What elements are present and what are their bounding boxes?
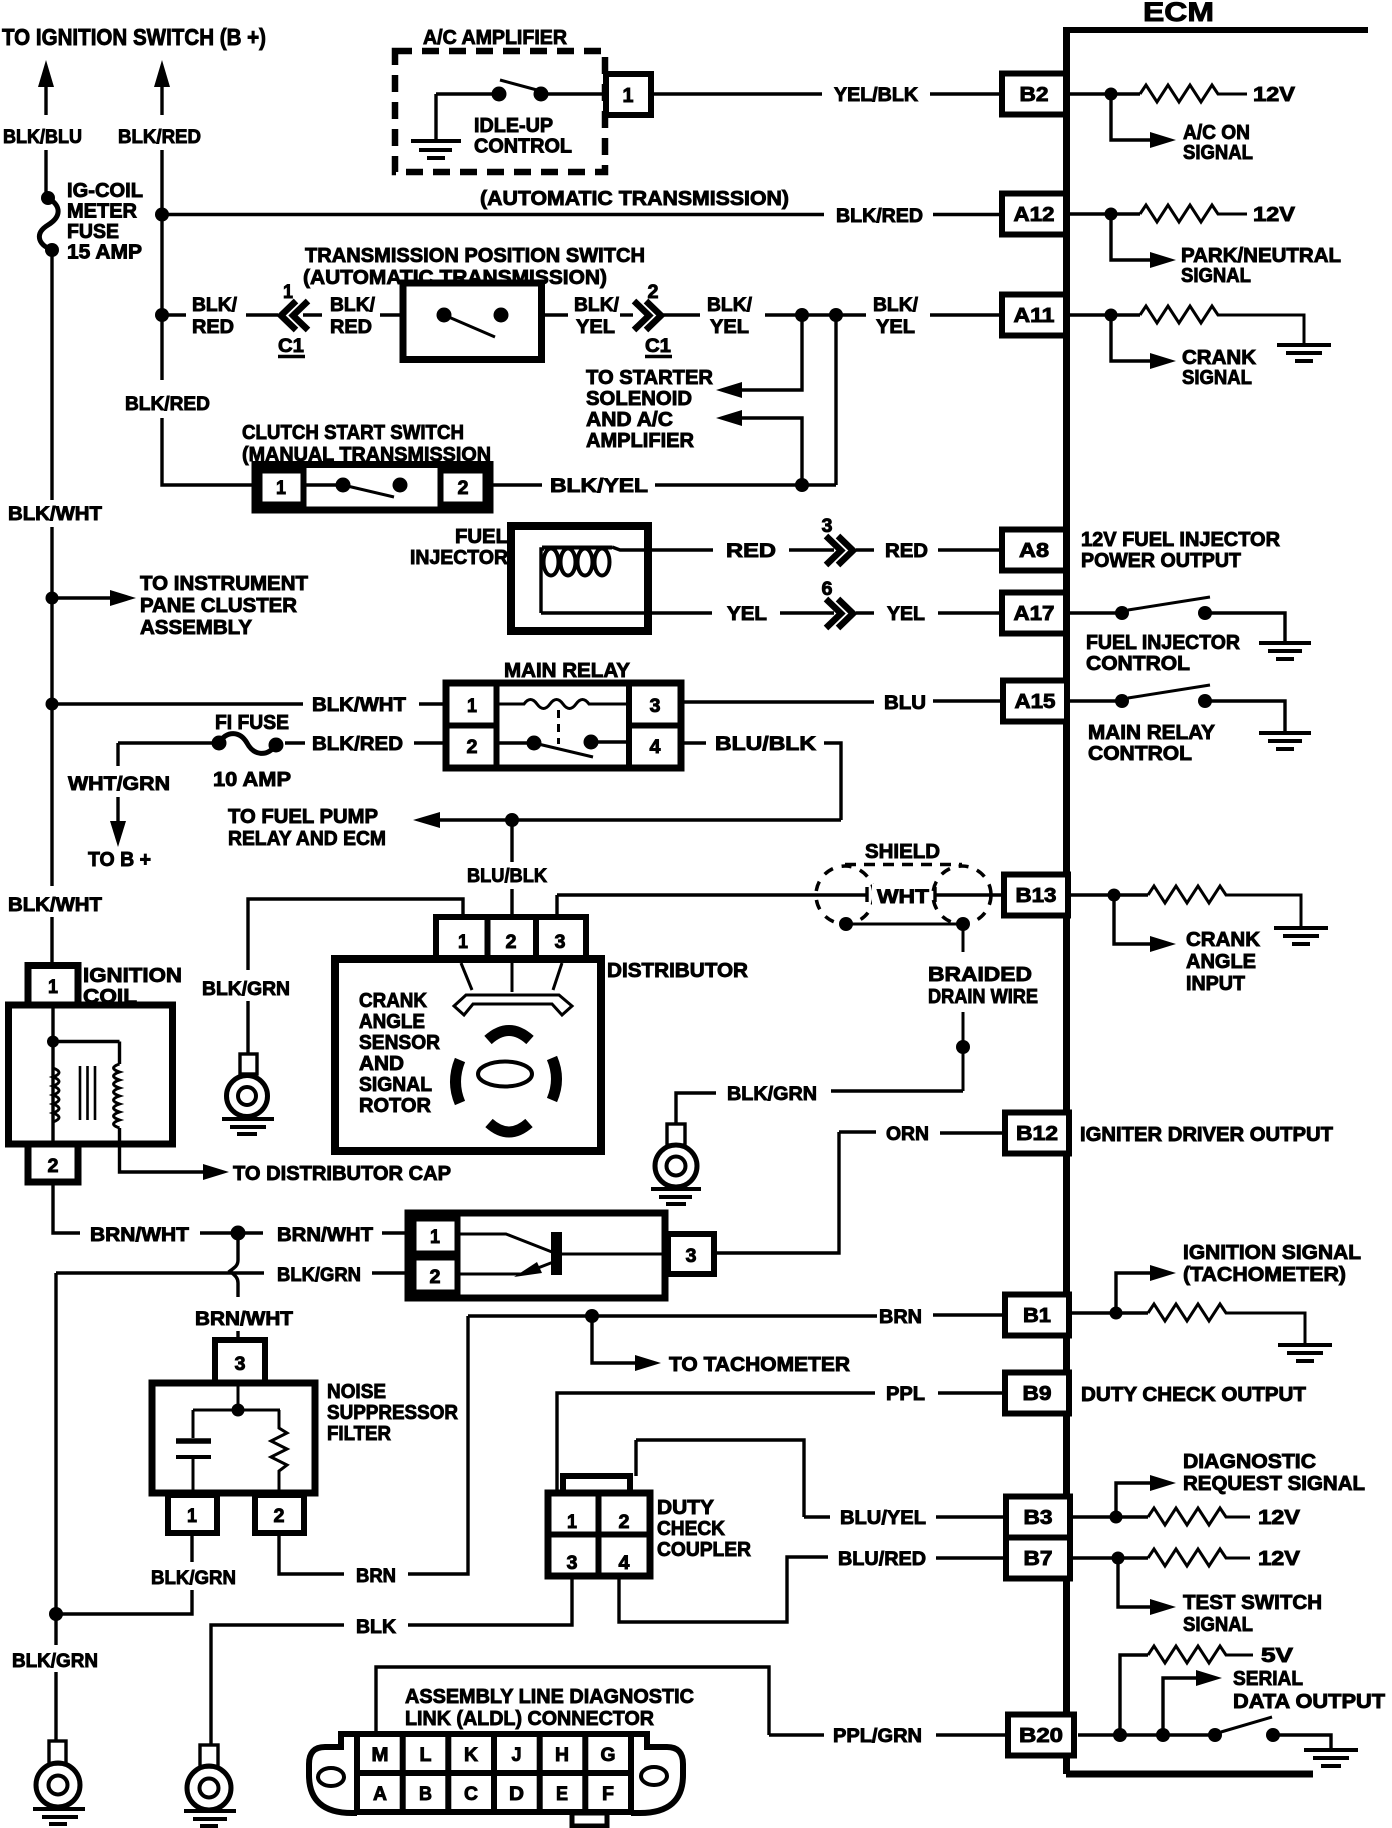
svg-text:RED: RED [885,540,928,562]
svg-text:BLK/: BLK/ [192,294,238,316]
node A/C ON SIGNAL arrow [1111,94,1253,164]
wire BLK/YEL riser to row3 [834,315,837,485]
wire PPL/GRN ALDL to B20 [376,1667,1008,1747]
svg-text:DUTY CHECK OUTPUT: DUTY CHECK OUTPUT [1081,1384,1306,1406]
connector A11 [1002,295,1066,336]
svg-text:2: 2 [48,1155,59,1177]
svg-text:PPL/GRN: PPL/GRN [833,1725,922,1747]
svg-text:A11: A11 [1014,305,1055,327]
svg-text:C1: C1 [645,335,671,357]
svg-text:1: 1 [467,695,477,717]
svg-text:1: 1 [48,976,58,998]
svg-text:B12: B12 [1016,1123,1058,1145]
wire YEL/BLK to B2 [651,84,1002,106]
connector B7 [1006,1538,1070,1579]
svg-text:IDLE-UP: IDLE-UP [474,115,553,137]
wire BLK/GRN distributor pin1 to ground [202,899,463,1054]
node 12V FUEL INJECTOR POWER OUTPUT [1081,529,1281,572]
svg-text:CHECK: CHECK [657,1518,726,1540]
connector C1 pin 1 chevron [278,281,308,357]
svg-text:BLK/RED: BLK/RED [836,205,923,227]
component MAIN RELAY [446,659,681,768]
ground GND-B13 [1274,928,1328,944]
svg-text:BLK/RED: BLK/RED [125,393,210,415]
svg-text:MAIN RELAY: MAIN RELAY [504,659,630,682]
svg-text:A8: A8 [1019,540,1049,562]
wire BLK/RED vertical to clutch switch [125,315,255,485]
wire ECM bottom boundary [1066,1771,1313,1778]
wire ORN igniter pin3 to B12 [714,1123,1005,1253]
svg-text:1: 1 [623,85,634,107]
wire BLK/WHT to main relay pin1 [46,694,447,716]
svg-text:ORN: ORN [886,1123,929,1145]
svg-text:BLK/YEL: BLK/YEL [550,475,648,497]
svg-text:BLK/RED: BLK/RED [312,733,403,755]
svg-text:LINK (ALDL) CONNECTOR: LINK (ALDL) CONNECTOR [405,1707,654,1730]
svg-text:2: 2 [619,1511,630,1533]
switch SW-A15 main relay control [1070,685,1285,765]
svg-text:2: 2 [467,736,478,758]
svg-text:DATA OUTPUT: DATA OUTPUT [1233,1691,1385,1713]
svg-text:CONTROL: CONTROL [1088,743,1192,765]
svg-text:B2: B2 [1020,84,1049,106]
wire ECM top boundary [1063,27,1368,33]
svg-text:K: K [464,1744,478,1766]
component FUEL INJECTOR [410,526,665,631]
node PARK/NEUTRAL SIGNAL arrow [1111,214,1341,287]
svg-text:3: 3 [555,931,566,953]
component transmission position switch box [403,283,542,360]
svg-text:CONTROL: CONTROL [1086,653,1190,675]
resistor R-A12 and 12V [1070,204,1296,226]
svg-text:BLK/BLU: BLK/BLU [3,126,82,148]
svg-text:BRN/WHT: BRN/WHT [277,1224,373,1246]
svg-text:BLK/: BLK/ [574,294,620,316]
svg-text:POWER OUTPUT: POWER OUTPUT [1081,550,1241,572]
wire WHT to B13 [557,884,1004,908]
svg-text:2: 2 [274,1505,285,1527]
svg-text:BLK/RED: BLK/RED [118,126,201,148]
svg-text:12V FUEL INJECTOR: 12V FUEL INJECTOR [1081,529,1281,551]
svg-text:C1: C1 [278,335,304,357]
svg-text:H: H [555,1744,569,1766]
resistor R-B2 and 12V [1070,84,1296,106]
resistor R-A11 to ground [1070,306,1304,343]
node CLUTCH START SWITCH title [242,421,491,466]
resistor R-B13 to ground [1070,886,1301,926]
svg-text:1: 1 [567,1511,577,1533]
svg-text:BRN/WHT: BRN/WHT [90,1224,189,1246]
svg-text:4: 4 [650,736,661,758]
svg-text:BLK/: BLK/ [707,294,753,316]
svg-text:3: 3 [822,515,833,537]
svg-text:3: 3 [650,695,661,717]
junction dot row2 [155,208,169,222]
ground GND idle-up [411,94,461,158]
connector A15 [1003,681,1067,722]
svg-text:ANGLE: ANGLE [359,1011,425,1033]
wire BLK/RED row3 mid [303,294,403,338]
connector B2 [1002,74,1066,115]
svg-text:INPUT: INPUT [1186,973,1245,995]
svg-text:BLU/YEL: BLU/YEL [840,1507,926,1529]
svg-text:BLU/RED: BLU/RED [838,1548,926,1570]
wire BLK coupler pin3 to ground rail [211,1576,572,1745]
svg-text:BRAIDED: BRAIDED [928,964,1032,986]
connector C1 pin 2 chevron [634,281,672,357]
svg-text:2: 2 [458,477,469,499]
wire BLK/YEL row3 after C1 [662,294,1002,338]
svg-text:ANGLE: ANGLE [1186,951,1256,973]
svg-text:BLK/GRN: BLK/GRN [277,1264,361,1286]
svg-text:B1: B1 [1023,1305,1051,1327]
svg-text:ROTOR: ROTOR [359,1095,432,1117]
svg-text:CRANK: CRANK [1182,347,1257,369]
svg-text:SHIELD: SHIELD [865,841,940,863]
connector B12 [1005,1113,1069,1154]
svg-text:WHT/GRN: WHT/GRN [68,773,170,795]
node TRANSMISSION POSITION SWITCH title [303,244,645,289]
component clutch start switch [255,465,490,511]
wire BLK/GRN noise filter pin1 to rail [49,1533,236,1621]
connector A12 [1002,194,1066,235]
switch SW-A17 fuel injector control [1070,597,1285,675]
svg-text:E: E [556,1783,568,1805]
svg-text:IGNITION SIGNAL: IGNITION SIGNAL [1183,1242,1361,1264]
ground GND-B1 [1278,1345,1332,1361]
svg-text:15 AMP: 15 AMP [67,241,142,264]
svg-text:BLK/GRN: BLK/GRN [727,1083,817,1105]
svg-text:3: 3 [686,1245,697,1267]
svg-text:IGNITION: IGNITION [83,964,182,987]
svg-text:4: 4 [619,1552,630,1574]
wire BLK/GRN rail to ground [12,1650,98,1741]
svg-text:(AUTOMATIC TRANSMISSION): (AUTOMATIC TRANSMISSION) [480,187,789,210]
svg-text:CONTROL: CONTROL [474,136,572,158]
connector B9 [1005,1373,1069,1414]
svg-text:5V: 5V [1261,1645,1294,1667]
svg-text:1: 1 [276,477,286,499]
svg-text:COUPLER: COUPLER [657,1539,752,1561]
svg-text:SIGNAL: SIGNAL [359,1074,432,1096]
svg-text:BLK/WHT: BLK/WHT [8,894,102,916]
svg-text:A/C AMPLIFIER: A/C AMPLIFIER [423,26,567,49]
ground ring terminal igniter BLK/GRN [651,1124,701,1204]
svg-text:TO TACHOMETER: TO TACHOMETER [669,1354,851,1376]
svg-text:SERIAL: SERIAL [1233,1668,1303,1690]
svg-text:AMPLIFIER: AMPLIFIER [586,430,695,452]
wire BLK/YEL clutch to riser [490,475,836,497]
svg-text:PANE CLUSTER: PANE CLUSTER [140,595,298,617]
svg-text:TO IGNITION SWITCH (B +): TO IGNITION SWITCH (B +) [2,24,266,50]
switch SW-B20 serial data to ground [1078,1717,1331,1748]
svg-text:CRANK: CRANK [1186,929,1261,951]
resistor R-B1 to ground [1070,1304,1305,1343]
svg-text:6: 6 [822,578,833,600]
wire BLK/YEL row3 after switch [542,294,634,338]
component IGNITION COIL [9,964,452,1185]
node TEST SWITCH SIGNAL arrow [1118,1558,1322,1636]
svg-text:TO B +: TO B + [88,848,151,871]
svg-text:DRAIN WIRE: DRAIN WIRE [928,986,1038,1008]
svg-text:F: F [602,1783,614,1805]
wire BLK/RED row3 left [162,294,278,338]
wire PPL to B9 [557,1383,1005,1495]
svg-text:BLU: BLU [884,692,926,714]
svg-text:MAIN RELAY: MAIN RELAY [1088,722,1216,744]
svg-text:SIGNAL: SIGNAL [1181,265,1251,287]
svg-text:TRANSMISSION POSITION SWITCH: TRANSMISSION POSITION SWITCH [305,244,645,267]
svg-text:CLUTCH START SWITCH: CLUTCH START SWITCH [242,421,464,444]
svg-text:NOISE: NOISE [327,1381,386,1403]
node CRANK ANGLE INPUT arrow [1114,895,1261,995]
svg-text:J: J [512,1744,522,1766]
svg-text:C: C [464,1783,478,1805]
wire BLU/BLK to distributor pin2 [467,820,547,919]
svg-text:YEL/BLK: YEL/BLK [834,84,918,106]
svg-text:B7: B7 [1024,1548,1053,1570]
node SERIAL DATA OUTPUT arrow [1163,1668,1385,1735]
wire RED to A8 with connector 3 [665,515,1002,565]
svg-text:SIGNAL: SIGNAL [1183,1614,1253,1636]
node ASSEMBLY LINE DIAGNOSTIC LINK (ALDL) CONNECTOR [405,1685,694,1730]
node CRANK SIGNAL arrow [1111,315,1257,389]
resistor R-B3 and 12V [1070,1507,1301,1529]
svg-text:SIGNAL: SIGNAL [1183,142,1253,164]
svg-text:M: M [372,1744,389,1766]
svg-text:YEL: YEL [576,316,615,338]
svg-text:B13: B13 [1016,885,1057,907]
svg-text:IGNITER DRIVER OUTPUT: IGNITER DRIVER OUTPUT [1080,1124,1333,1146]
resistor R-B7 and 12V [1070,1548,1301,1570]
svg-text:2: 2 [430,1266,441,1288]
svg-text:D: D [509,1783,524,1805]
ground ring terminal BLK [184,1745,236,1826]
svg-text:SIGNAL: SIGNAL [1182,367,1252,389]
svg-text:BLK/: BLK/ [873,294,919,316]
wire BLK/BLU arrow up [3,60,82,194]
wire BLU/YEL coupler pin2 to B3 [636,1440,1006,1529]
fuse IG-COIL METER FUSE 15 AMP [39,179,143,264]
component DUTY CHECK COUPLER [548,1440,752,1576]
wire BLK/RED arrow up [118,60,201,315]
svg-text:FUEL INJECTOR: FUEL INJECTOR [1086,632,1241,654]
svg-text:DUTY: DUTY [657,1497,715,1519]
wire ECM left boundary [1063,30,1070,1774]
svg-text:3: 3 [235,1353,246,1375]
wire BLK/WHT left vertical [8,250,102,967]
svg-text:BLU/BLK: BLU/BLK [715,733,816,755]
svg-text:ASSEMBLY LINE DIAGNOSTIC: ASSEMBLY LINE DIAGNOSTIC [405,1685,694,1708]
svg-text:YEL: YEL [887,603,925,625]
wire BRN noise filter pin2 to B1 [279,1306,1005,1587]
svg-text:SUPPRESSOR: SUPPRESSOR [327,1402,459,1424]
svg-text:(TACHOMETER): (TACHOMETER) [1183,1264,1346,1286]
fuse FI FUSE 10 AMP [118,711,291,791]
svg-text:RED: RED [726,540,776,562]
svg-text:10 AMP: 10 AMP [213,768,291,791]
wire BLU from relay pin3 to A15 [681,692,1003,714]
svg-text:BLK/WHT: BLK/WHT [312,694,406,716]
ground GND-A17 [1259,643,1311,659]
svg-text:2: 2 [506,931,517,953]
wire YEL to A17 with connector 6 [665,578,1002,628]
connector B3 [1006,1497,1070,1538]
svg-text:DISTRIBUTOR: DISTRIBUTOR [607,959,748,982]
connector B20 [1008,1715,1074,1756]
connector pin 1 A/C amplifier [606,74,651,115]
svg-text:FI FUSE: FI FUSE [215,711,289,734]
svg-text:BRN: BRN [356,1565,396,1587]
svg-text:BRN: BRN [879,1306,922,1328]
component IGNITER (noise filter feed transistor) [408,1213,714,1298]
svg-text:SENSOR: SENSOR [359,1032,441,1054]
connector A8 [1002,530,1066,571]
svg-text:RELAY AND ECM: RELAY AND ECM [228,828,386,850]
wire braided drain [839,917,1038,1091]
component A/C AMPLIFIER dashed box [395,26,605,172]
node IGNITION SIGNAL (TACHOMETER) arrow [1116,1242,1361,1313]
wire TO TACHOMETER arrow [592,1316,851,1376]
svg-text:A17: A17 [1014,603,1055,625]
wire BLU/RED coupler pin4 to B7 [619,1548,1006,1622]
svg-text:B9: B9 [1023,1383,1052,1405]
junction dot row3 [155,308,169,322]
svg-text:G: G [601,1744,616,1766]
svg-text:1: 1 [187,1505,197,1527]
svg-text:TEST SWITCH: TEST SWITCH [1183,1592,1322,1614]
svg-text:1: 1 [430,1226,440,1248]
connector B1 [1005,1295,1069,1336]
svg-text:SOLENOID: SOLENOID [586,388,692,410]
svg-text:BLU/BLK: BLU/BLK [467,865,547,887]
svg-text:12V: 12V [1258,1548,1301,1570]
component ALDL connector body [309,1734,683,1826]
svg-text:TO DISTRIBUTOR CAP: TO DISTRIBUTOR CAP [233,1162,451,1185]
wire WHT/GRN TO B+ arrow [68,743,170,871]
svg-text:A12: A12 [1014,204,1055,226]
svg-text:1: 1 [458,931,468,953]
wire BLK/RED to main relay pin2 [285,733,446,755]
resistor R-B20 5V [1120,1645,1294,1735]
svg-text:BLK/: BLK/ [330,294,376,316]
svg-text:BLK/WHT: BLK/WHT [8,503,102,525]
svg-text:B20: B20 [1019,1725,1063,1747]
component DISTRIBUTOR [335,917,748,1151]
svg-text:RED: RED [192,316,234,338]
svg-text:3: 3 [567,1552,578,1574]
svg-text:WHT: WHT [877,886,929,908]
svg-text:BLK/GRN: BLK/GRN [12,1650,98,1672]
svg-text:YEL: YEL [710,316,749,338]
ground GND-A15 [1259,733,1311,749]
wire BLK/GRN shield drain to ground [676,1083,963,1124]
svg-text:FILTER: FILTER [327,1423,392,1445]
ground ring terminal distributor BLK/GRN [222,1054,274,1134]
svg-text:A15: A15 [1015,691,1056,713]
svg-text:PPL: PPL [886,1383,925,1405]
wire TO FUEL PUMP RELAY AND ECM arrow [228,806,841,850]
svg-text:BRN/WHT: BRN/WHT [195,1308,293,1330]
node TO STARTER SOLENOID AND A/C AMPLIFIER [586,367,714,452]
svg-text:ECM: ECM [1143,0,1214,27]
svg-text:BLK/GRN: BLK/GRN [151,1567,236,1589]
connector A17 [1002,593,1066,634]
switch SW idle-up control [436,80,605,102]
svg-text:12V: 12V [1253,84,1296,106]
svg-text:INJECTOR: INJECTOR [410,547,509,569]
svg-text:A/C ON: A/C ON [1183,122,1250,144]
svg-text:RED: RED [330,316,372,338]
wire to starter solenoid arrow 2 [716,410,802,485]
node TO INSTRUMENT PANE CLUSTER ASSEMBLY arrow [46,573,309,639]
svg-text:YEL: YEL [727,603,767,625]
svg-text:L: L [420,1744,432,1766]
svg-text:A: A [373,1783,387,1805]
svg-text:TO FUEL PUMP: TO FUEL PUMP [228,806,378,828]
svg-text:B3: B3 [1024,1507,1053,1529]
connector B13 [1004,875,1068,916]
svg-text:12V: 12V [1253,204,1296,226]
ground GND-B20 [1304,1750,1358,1766]
wire BLK/RED to A12 [162,205,1002,227]
wire BLK/GRN igniter pin2 to left rail [56,1264,409,1645]
component NOISE SUPPRESSOR FILTER [152,1340,459,1533]
svg-text:BLK/GRN: BLK/GRN [202,978,290,1000]
svg-text:AND A/C: AND A/C [586,409,673,431]
shield dashed circles [816,865,991,925]
svg-text:TO STARTER: TO STARTER [586,367,714,389]
svg-text:PARK/NEUTRAL: PARK/NEUTRAL [1181,245,1341,267]
svg-text:TO INSTRUMENT: TO INSTRUMENT [140,573,308,595]
svg-text:12V: 12V [1258,1507,1301,1529]
ground GND-A11 [1277,345,1331,361]
svg-text:ASSEMBLY: ASSEMBLY [140,617,253,639]
svg-text:1: 1 [283,281,293,303]
node DIAGNOSTIC REQUEST SIGNAL arrow [1116,1451,1365,1517]
ground ring terminal left BLK/GRN [33,1741,85,1824]
wire BLU/BLK from relay pin4 [681,733,841,820]
svg-text:AND: AND [359,1053,404,1075]
wire WHT drop to distributor pin3 [555,895,558,919]
wire to starter solenoid arrow 1 [716,315,802,398]
svg-text:FUEL: FUEL [455,526,508,548]
svg-text:B: B [419,1783,432,1805]
wire BRN/WHT coil pin2 to igniter pin1 [53,1182,409,1246]
svg-text:CRANK: CRANK [359,990,428,1012]
wire BRN/WHT drop with hop to noise filter [195,1240,293,1340]
svg-text:YEL: YEL [876,316,915,338]
svg-text:REQUEST SIGNAL: REQUEST SIGNAL [1183,1473,1365,1495]
svg-text:BLK: BLK [356,1616,396,1638]
svg-text:DIAGNOSTIC: DIAGNOSTIC [1183,1451,1316,1473]
